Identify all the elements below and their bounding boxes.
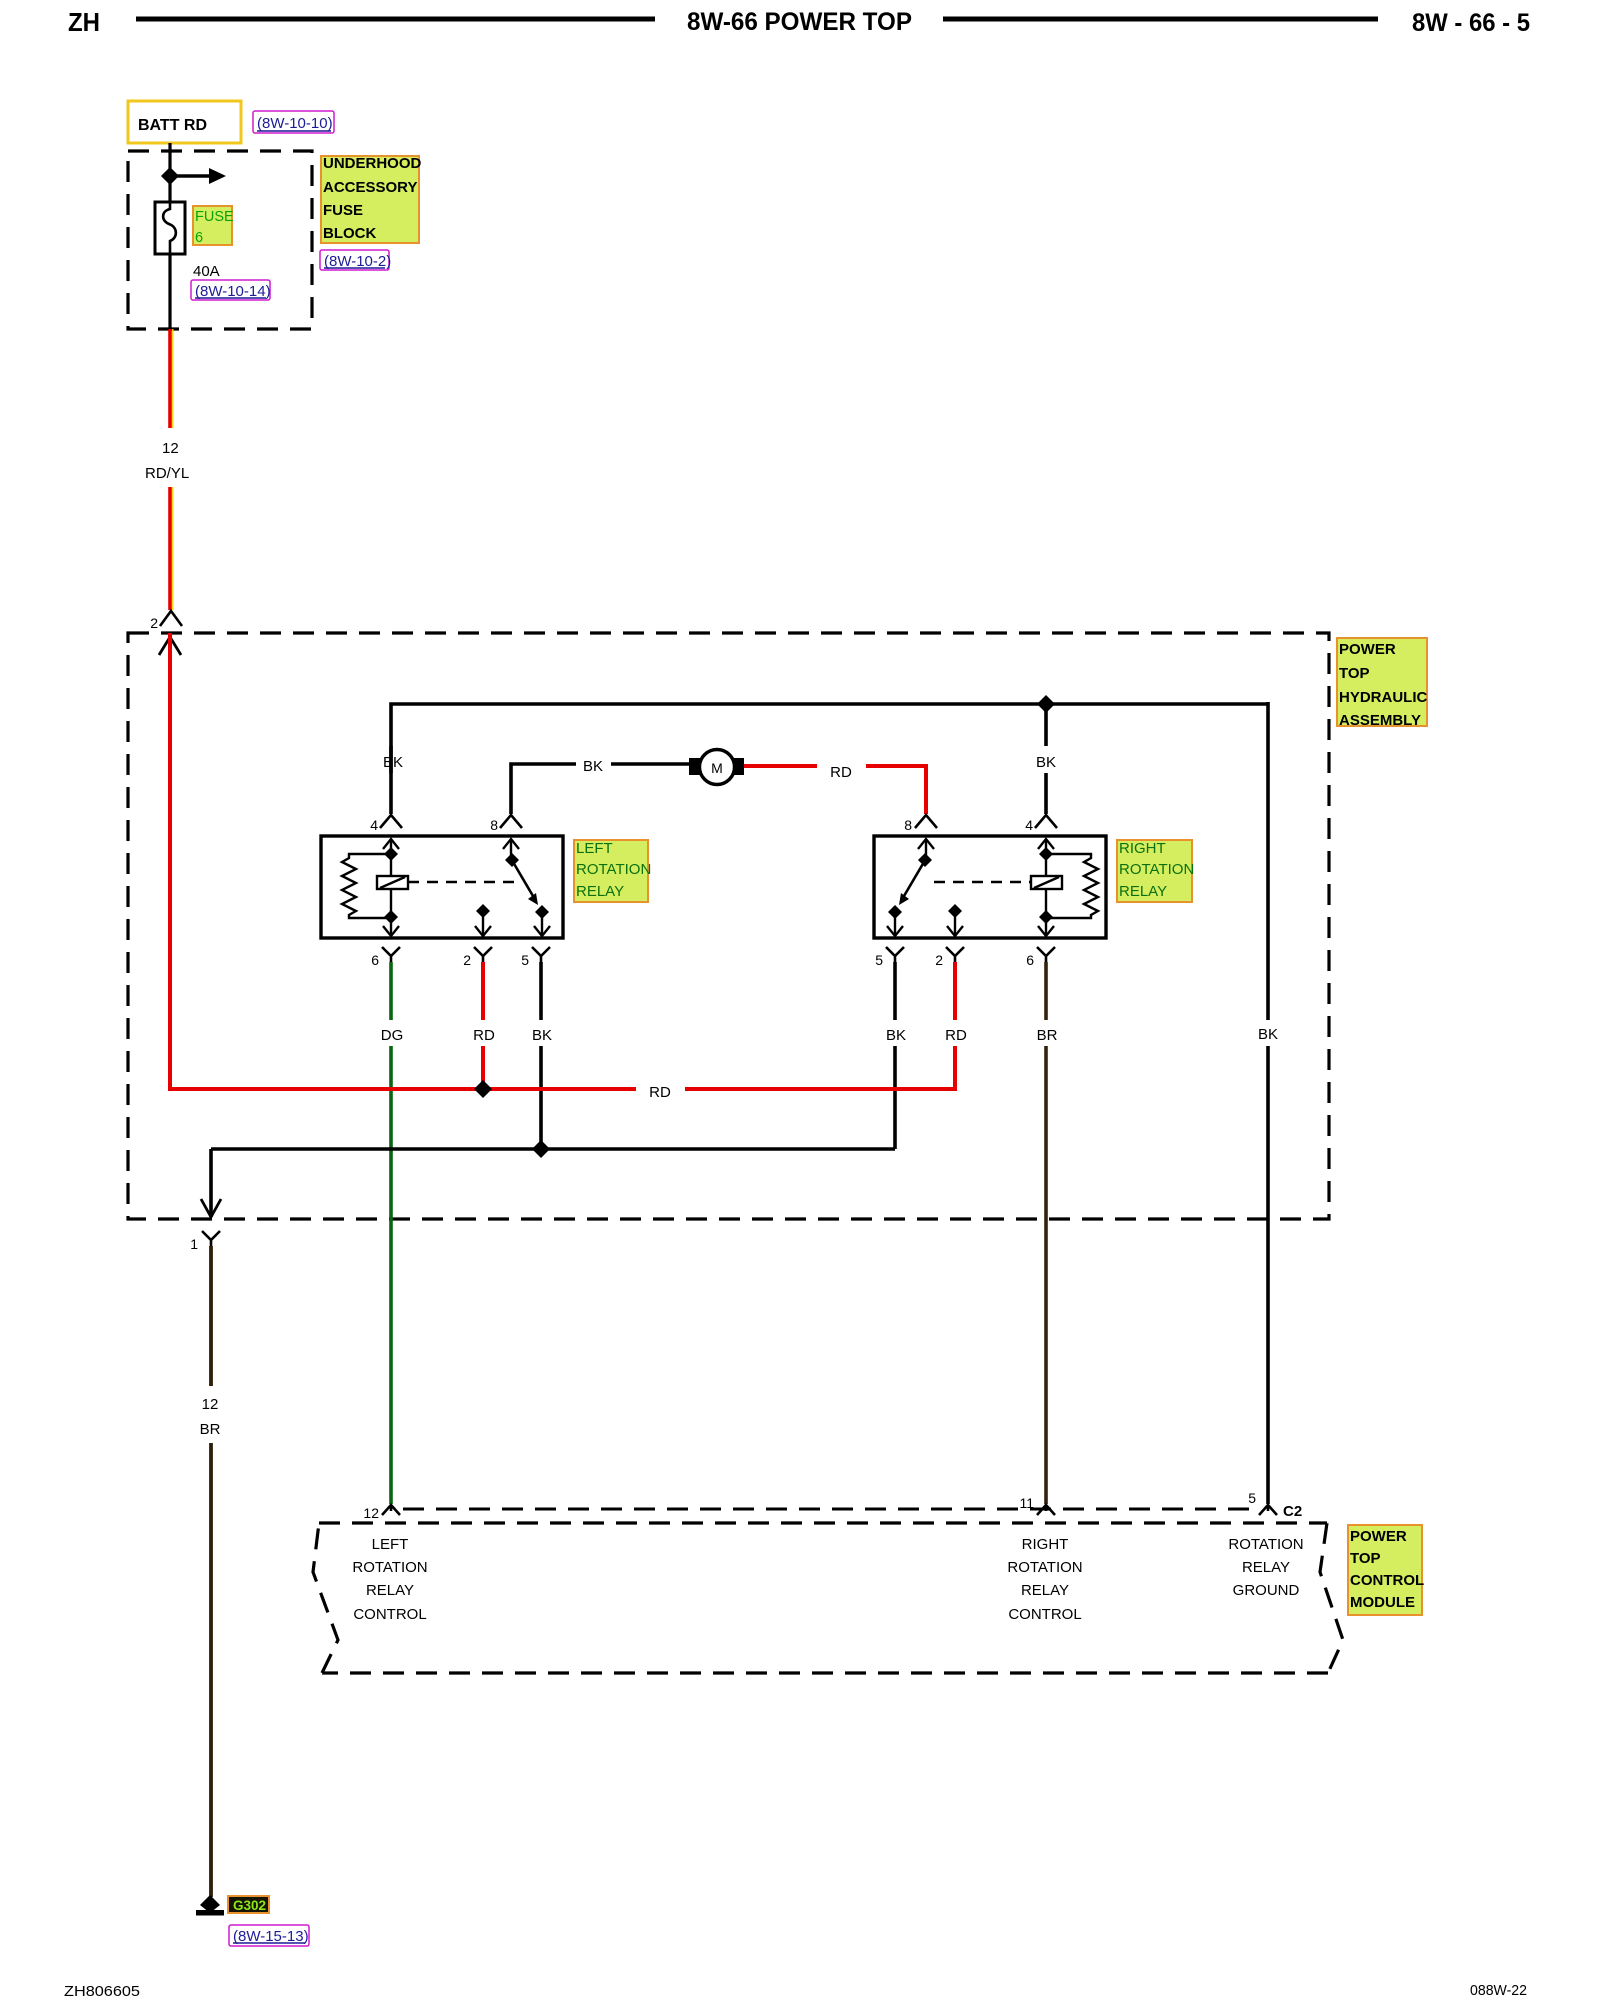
svg-text:8: 8 xyxy=(904,817,912,833)
pin 6 right relay connector xyxy=(1026,947,1055,968)
pin 5 right relay connector xyxy=(875,947,904,968)
header xyxy=(68,7,1530,37)
svg-text:40A: 40A xyxy=(193,263,220,280)
svg-text:LEFT: LEFT xyxy=(576,840,613,857)
svg-text:ZH: ZH xyxy=(68,7,100,37)
svg-text:ROTATION: ROTATION xyxy=(1119,861,1194,878)
pin 8 left relay xyxy=(490,815,522,833)
svg-text:FUSE: FUSE xyxy=(323,202,363,219)
wire BK left relay pin8 to motor xyxy=(511,764,691,814)
ground G302 symbol xyxy=(196,1895,224,1916)
pin 12 module connector xyxy=(363,1505,400,1521)
svg-text:C2: C2 xyxy=(1283,1503,1302,1520)
svg-text:8: 8 xyxy=(490,817,498,833)
svg-text:RD/YL: RD/YL xyxy=(145,465,189,482)
label FUSE 6 xyxy=(193,206,234,246)
svg-text:BK: BK xyxy=(532,1027,552,1044)
fuse F6 xyxy=(155,202,185,254)
label POWER TOP HYDRAULIC ASSEMBLY xyxy=(1337,638,1427,729)
svg-text:DG: DG xyxy=(381,1027,404,1044)
svg-text:CONTROL: CONTROL xyxy=(353,1606,426,1623)
arrow coil to pin6 right xyxy=(1038,926,1054,936)
svg-text:BK: BK xyxy=(1258,1026,1278,1043)
wire circuit 12 RD/YL fuse block to hydraulic assembly xyxy=(170,329,173,610)
pin 5 left relay connector xyxy=(521,947,550,968)
pin 2 stub left relay xyxy=(475,904,491,936)
wire BR circuit 12 to ground xyxy=(209,1246,213,1897)
resistor left relay xyxy=(342,854,391,918)
wire RD left relay pin2 to RD bus xyxy=(481,962,485,1089)
svg-text:RD: RD xyxy=(945,1027,967,1044)
svg-text:6: 6 xyxy=(1026,952,1034,968)
svg-text:ACCESSORY: ACCESSORY xyxy=(323,179,417,196)
label left rotation relay control xyxy=(352,1536,427,1623)
pin 11 module connector xyxy=(1019,1495,1055,1515)
resistor right relay xyxy=(1046,854,1098,918)
junction coil bottom right xyxy=(1039,910,1053,924)
svg-text:BATT RD: BATT RD xyxy=(138,117,207,134)
link 8W-10-2 xyxy=(320,250,391,270)
svg-text:TOP: TOP xyxy=(1339,665,1370,682)
svg-text:2: 2 xyxy=(463,952,471,968)
junction bus to right relay pin 4 xyxy=(1037,695,1055,713)
svg-text:4: 4 xyxy=(370,817,378,833)
svg-text:HYDRAULIC: HYDRAULIC xyxy=(1339,689,1427,706)
svg-text:12: 12 xyxy=(162,440,179,457)
switch left relay xyxy=(503,839,550,936)
pin 4 left relay xyxy=(370,815,402,833)
svg-text:2: 2 xyxy=(935,952,943,968)
label rotation relay ground xyxy=(1228,1536,1303,1599)
svg-text:12: 12 xyxy=(202,1396,219,1413)
svg-text:1: 1 xyxy=(190,1236,198,1252)
wire coil to pin6 xyxy=(390,889,392,936)
junction coil top right xyxy=(1039,847,1053,861)
wire BK right relay pin4 xyxy=(1044,704,1048,814)
svg-text:RELAY: RELAY xyxy=(1119,883,1167,900)
wire BK link horizontal xyxy=(211,1147,895,1151)
arrow feed to accessories xyxy=(170,168,226,184)
wire fuse to block edge xyxy=(168,254,171,329)
wire RD into assembly (entry arrow) xyxy=(159,637,181,655)
wire RD bus horizontal xyxy=(170,1087,954,1089)
junction BK link left relay pin5 xyxy=(532,1140,550,1158)
dashed actuation link right relay xyxy=(934,881,1031,883)
svg-text:CONTROL: CONTROL xyxy=(1350,1572,1424,1589)
link 8W-10-10 xyxy=(253,111,334,133)
wire coil to pin6 right xyxy=(1045,889,1047,936)
power top control module outline xyxy=(313,1523,1343,1673)
wire BK far right to control module pin5 xyxy=(1266,702,1270,1504)
svg-text:12: 12 xyxy=(363,1505,379,1521)
svg-text:2: 2 xyxy=(150,615,158,631)
svg-text:ZH806605: ZH806605 xyxy=(64,1983,140,2000)
link 8W-10-14 xyxy=(191,280,271,300)
svg-text:BK: BK xyxy=(886,1027,906,1044)
wire BK ground bus (top horizontal) xyxy=(389,746,393,814)
wire pin4 to coil xyxy=(390,839,392,876)
svg-text:BK: BK xyxy=(383,754,403,771)
junction RD bus left relay pin2 xyxy=(474,1080,492,1098)
motor M xyxy=(689,750,744,785)
relay K1 left rotation relay box xyxy=(321,836,563,938)
label 12 RD/YL xyxy=(145,440,189,482)
label POWER TOP CONTROL MODULE xyxy=(1348,1525,1424,1615)
junction batt feed xyxy=(161,167,179,185)
node BATT RD xyxy=(128,101,241,143)
wire BK down to module pin1 xyxy=(209,1149,213,1217)
wire batt feed into fuse block xyxy=(168,143,171,203)
wire pin4 to coil right xyxy=(1045,839,1047,876)
svg-text:8W-66 POWER TOP: 8W-66 POWER TOP xyxy=(687,8,912,36)
label LEFT ROTATION RELAY xyxy=(574,840,651,902)
svg-text:4: 4 xyxy=(1025,817,1033,833)
wire DG left relay pin6 to module pin12 xyxy=(389,962,393,1504)
pin 1 connector xyxy=(190,1231,220,1252)
svg-text:M: M xyxy=(711,760,723,776)
svg-text:RD: RD xyxy=(649,1084,671,1101)
svg-text:CONTROL: CONTROL xyxy=(1008,1606,1081,1623)
pin 2 hydraulic assembly connector xyxy=(150,611,182,631)
label UNDERHOOD ACCESSORY FUSE BLOCK xyxy=(321,155,422,243)
wire RD vertical inside assembly xyxy=(168,633,172,1087)
svg-text:GROUND: GROUND xyxy=(1233,1582,1300,1599)
svg-text:BR: BR xyxy=(200,1421,221,1438)
svg-text:RELAY: RELAY xyxy=(366,1582,414,1599)
label G302 xyxy=(228,1896,269,1913)
svg-text:MODULE: MODULE xyxy=(1350,1594,1415,1611)
svg-text:8W - 66 - 5: 8W - 66 - 5 xyxy=(1412,9,1530,37)
svg-text:11: 11 xyxy=(1019,1495,1034,1511)
svg-text:G302: G302 xyxy=(233,1898,266,1913)
svg-text:ROTATION: ROTATION xyxy=(576,861,651,878)
svg-text:BK: BK xyxy=(1036,754,1056,771)
pin 8 right relay xyxy=(904,815,937,833)
label RIGHT ROTATION RELAY xyxy=(1117,840,1194,902)
svg-text:TOP: TOP xyxy=(1350,1550,1381,1567)
svg-text:RELAY: RELAY xyxy=(1021,1582,1069,1599)
svg-text:5: 5 xyxy=(875,952,883,968)
svg-text:POWER: POWER xyxy=(1339,641,1396,658)
svg-text:ROTATION: ROTATION xyxy=(1228,1536,1303,1553)
svg-text:5: 5 xyxy=(521,952,529,968)
connector C2 pin row xyxy=(403,1508,1256,1511)
power top hydraulic assembly outline xyxy=(128,633,1329,1219)
pin 2 stub right relay xyxy=(947,904,963,936)
wire BK left relay pin5 to BK link xyxy=(539,962,543,1149)
switch right relay xyxy=(887,839,934,936)
pin 5 module connector xyxy=(1248,1490,1277,1515)
svg-text:BR: BR xyxy=(1037,1027,1058,1044)
svg-text:RIGHT: RIGHT xyxy=(1119,840,1166,857)
svg-text:BK: BK xyxy=(583,758,603,775)
svg-text:RELAY: RELAY xyxy=(576,883,624,900)
svg-text:6: 6 xyxy=(371,952,379,968)
svg-text:ROTATION: ROTATION xyxy=(352,1559,427,1576)
svg-text:FUSE: FUSE xyxy=(195,209,234,225)
svg-text:RIGHT: RIGHT xyxy=(1022,1536,1069,1553)
svg-text:UNDERHOOD: UNDERHOOD xyxy=(323,155,422,172)
svg-text:RD: RD xyxy=(473,1027,495,1044)
svg-text:5: 5 xyxy=(1248,1490,1256,1506)
wire RD motor to right relay pin8 xyxy=(744,766,926,814)
pin 2 right relay connector xyxy=(935,947,964,968)
pin 2 left relay connector xyxy=(463,947,492,968)
junction coil bottom xyxy=(384,910,398,924)
wire BR right relay pin6 to module pin11 xyxy=(1044,962,1048,1504)
underhood accessory fuse block outline xyxy=(128,151,312,329)
footer xyxy=(64,1982,1527,2000)
svg-text:6: 6 xyxy=(195,230,203,246)
wire RD right relay pin2 to RD bus xyxy=(953,962,957,1091)
arrow BK exits assembly xyxy=(201,1199,221,1217)
coil right relay xyxy=(1031,876,1062,889)
junction coil top xyxy=(384,847,398,861)
dashed actuation link left relay xyxy=(408,881,517,883)
label 12 BR xyxy=(200,1396,221,1438)
svg-text:(8W-10-10): (8W-10-10) xyxy=(257,115,333,132)
svg-text:LEFT: LEFT xyxy=(372,1536,409,1553)
svg-text:ROTATION: ROTATION xyxy=(1007,1559,1082,1576)
svg-text:RELAY: RELAY xyxy=(1242,1559,1290,1576)
svg-text:POWER: POWER xyxy=(1350,1528,1407,1545)
wire BK right relay pin5 to BK link xyxy=(893,962,897,1149)
svg-text:RD: RD xyxy=(830,764,852,781)
pin 6 left relay connector xyxy=(371,947,400,968)
right relay coil branch entry arrow xyxy=(1038,839,1054,849)
pin 4 right relay xyxy=(1025,815,1057,833)
link 8W-15-13 xyxy=(229,1925,309,1946)
relay K2 right rotation relay box xyxy=(874,836,1106,938)
left relay coil branch entry arrow xyxy=(383,839,399,849)
coil left relay xyxy=(377,876,408,889)
label right rotation relay control xyxy=(1007,1536,1082,1623)
svg-text:088W-22: 088W-22 xyxy=(1470,1982,1527,1999)
svg-text:ASSEMBLY: ASSEMBLY xyxy=(1339,712,1421,729)
svg-text:BLOCK: BLOCK xyxy=(323,225,376,242)
arrow coil to pin6 xyxy=(383,926,399,936)
